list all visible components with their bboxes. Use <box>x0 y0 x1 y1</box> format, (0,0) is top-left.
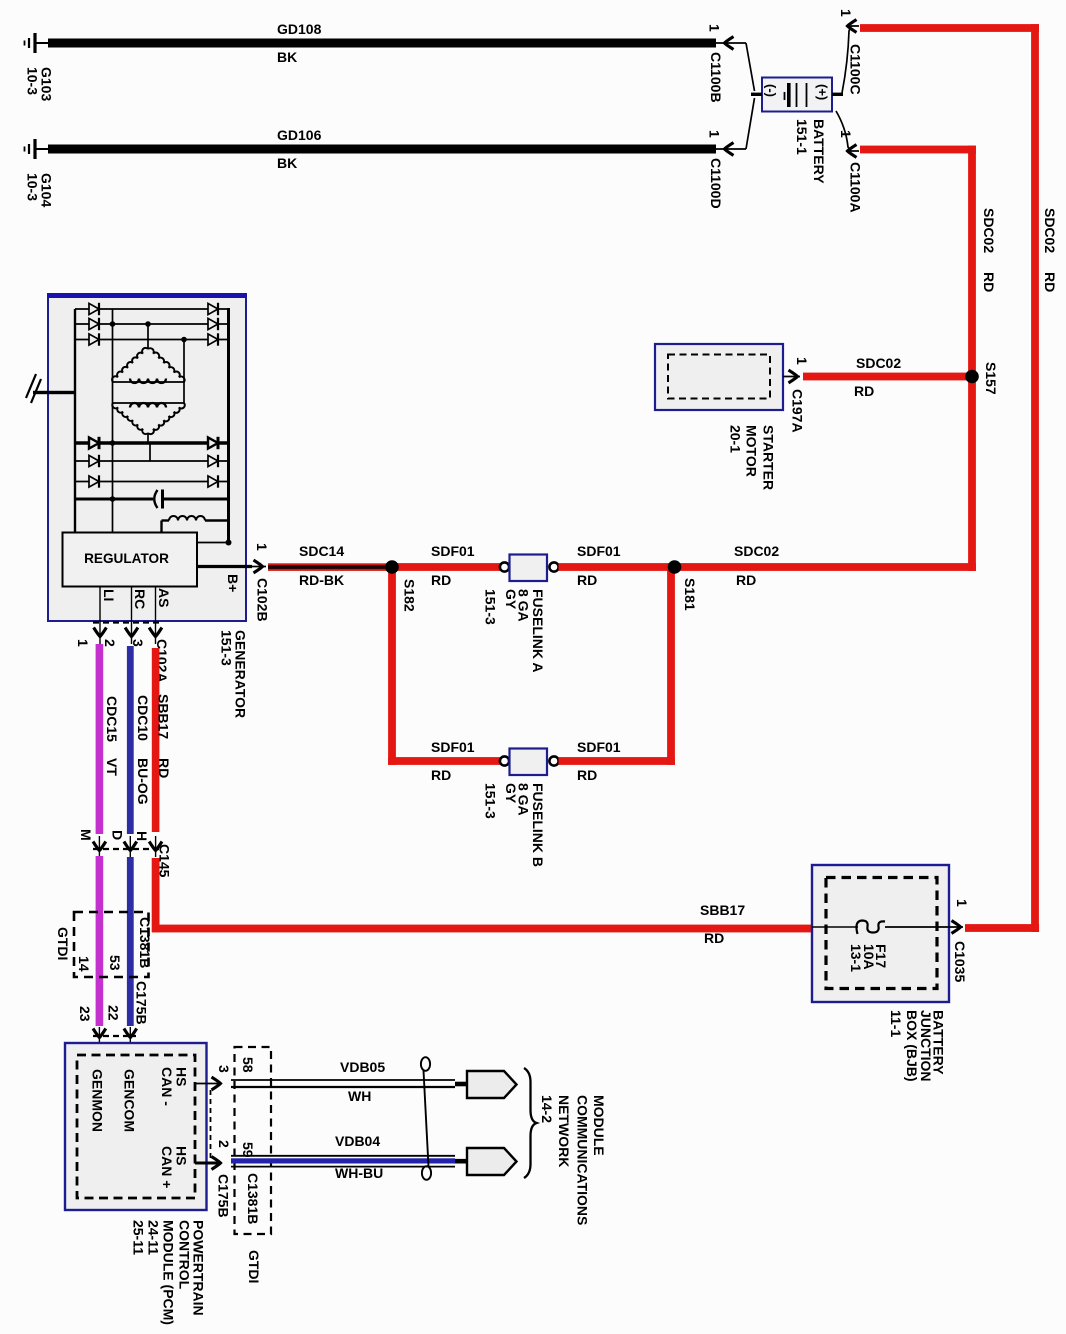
svg-text:C1100D: C1100D <box>708 158 724 209</box>
svg-text:1: 1 <box>954 899 970 907</box>
svg-text:SBB17: SBB17 <box>700 902 745 918</box>
svg-text:CAN -: CAN - <box>159 1067 175 1106</box>
svg-text:SDC02: SDC02 <box>981 208 997 253</box>
svg-text:58: 58 <box>240 1057 256 1073</box>
svg-text:14: 14 <box>76 956 92 972</box>
svg-text:RD: RD <box>854 383 874 399</box>
svg-text:NETWORK: NETWORK <box>556 1095 572 1167</box>
svg-text:BU-OG: BU-OG <box>135 758 151 805</box>
svg-text:53: 53 <box>107 955 123 971</box>
svg-text:GTDI: GTDI <box>55 927 71 960</box>
svg-text:S157: S157 <box>983 362 999 395</box>
svg-text:BK: BK <box>277 49 297 65</box>
svg-text:S182: S182 <box>402 579 418 612</box>
svg-text:2: 2 <box>102 639 118 647</box>
svg-text:11-1: 11-1 <box>888 1010 904 1037</box>
svg-text:B+: B+ <box>225 574 241 592</box>
svg-text:BATTERY: BATTERY <box>811 119 827 184</box>
svg-text:C175B: C175B <box>216 1174 232 1218</box>
svg-text:(-): (-) <box>764 84 779 97</box>
svg-text:1: 1 <box>254 543 270 551</box>
svg-text:C1100A: C1100A <box>848 162 864 213</box>
svg-text:151-3: 151-3 <box>483 783 499 819</box>
svg-text:CDC10: CDC10 <box>135 695 151 741</box>
svg-text:RD: RD <box>577 767 597 783</box>
svg-text:GY: GY <box>503 783 519 804</box>
svg-text:BOX (BJB): BOX (BJB) <box>904 1010 920 1082</box>
svg-text:C102B: C102B <box>255 578 271 622</box>
svg-text:RD: RD <box>736 572 756 588</box>
svg-text:D: D <box>110 830 126 840</box>
svg-text:VDB04: VDB04 <box>335 1133 380 1149</box>
svg-text:1: 1 <box>838 9 854 17</box>
svg-text:COMMUNICATIONS: COMMUNICATIONS <box>575 1095 591 1225</box>
svg-text:3: 3 <box>216 1065 232 1073</box>
svg-text:RD: RD <box>577 572 597 588</box>
svg-text:H: H <box>134 831 150 841</box>
svg-text:23: 23 <box>77 1006 93 1022</box>
svg-text:22: 22 <box>106 1005 122 1021</box>
svg-text:GTDI: GTDI <box>246 1250 262 1283</box>
svg-text:SDF01: SDF01 <box>577 543 621 559</box>
svg-text:GD106: GD106 <box>277 127 322 143</box>
svg-text:3: 3 <box>130 639 146 647</box>
svg-text:SDC02: SDC02 <box>1042 208 1058 253</box>
svg-text:RD: RD <box>431 767 451 783</box>
svg-text:C1100B: C1100B <box>708 52 724 103</box>
svg-text:SDC02: SDC02 <box>734 543 779 559</box>
svg-text:C1381B: C1381B <box>245 1173 261 1224</box>
svg-text:C175B: C175B <box>134 981 150 1025</box>
svg-text:STARTER: STARTER <box>761 425 777 490</box>
svg-text:13-1: 13-1 <box>848 944 864 972</box>
svg-text:MODULE (PCM): MODULE (PCM) <box>161 1220 177 1325</box>
svg-text:14-2: 14-2 <box>539 1095 555 1123</box>
svg-text:MODULE: MODULE <box>591 1095 607 1156</box>
svg-text:RC: RC <box>132 589 148 609</box>
svg-text:RD: RD <box>981 272 997 292</box>
svg-text:VT: VT <box>104 758 120 776</box>
svg-text:SDF01: SDF01 <box>431 543 475 559</box>
svg-text:RD-BK: RD-BK <box>299 572 344 588</box>
svg-text:RD: RD <box>156 758 172 778</box>
svg-text:151-1: 151-1 <box>794 119 810 155</box>
svg-text:24-11: 24-11 <box>146 1220 162 1255</box>
svg-text:SDC14: SDC14 <box>299 543 344 559</box>
svg-text:CDC15: CDC15 <box>104 696 120 742</box>
svg-text:(+): (+) <box>815 84 830 100</box>
svg-text:VDB05: VDB05 <box>340 1059 385 1075</box>
svg-text:C1100C: C1100C <box>848 44 864 95</box>
svg-text:GD108: GD108 <box>277 21 322 37</box>
svg-text:WH-BU: WH-BU <box>335 1165 383 1181</box>
svg-text:RD: RD <box>431 572 451 588</box>
svg-text:GENCOM: GENCOM <box>122 1069 138 1132</box>
svg-text:C1035: C1035 <box>952 941 968 982</box>
svg-text:GY: GY <box>503 589 519 610</box>
svg-text:RD: RD <box>704 930 724 946</box>
svg-text:SDF01: SDF01 <box>431 739 475 755</box>
svg-text:GENMON: GENMON <box>90 1069 106 1132</box>
svg-text:WH: WH <box>348 1088 371 1104</box>
svg-text:1: 1 <box>707 130 723 138</box>
svg-text:BK: BK <box>277 155 297 171</box>
svg-text:151-3: 151-3 <box>483 589 499 625</box>
svg-text:2: 2 <box>216 1140 232 1148</box>
svg-text:CONTROL: CONTROL <box>177 1220 193 1290</box>
svg-text:LI: LI <box>101 589 117 601</box>
svg-text:10-3: 10-3 <box>25 67 41 95</box>
svg-text:REGULATOR: REGULATOR <box>84 551 169 566</box>
svg-text:1: 1 <box>838 130 854 138</box>
svg-text:RD: RD <box>1042 272 1058 292</box>
svg-text:C197A: C197A <box>790 389 806 433</box>
svg-text:SDF01: SDF01 <box>577 739 621 755</box>
svg-text:CAN +: CAN + <box>159 1146 175 1188</box>
svg-text:M: M <box>78 829 94 841</box>
svg-text:AS: AS <box>156 588 172 607</box>
svg-text:SBB17: SBB17 <box>156 694 172 739</box>
svg-text:20-1: 20-1 <box>728 425 744 453</box>
svg-text:1: 1 <box>707 24 723 32</box>
svg-text:S181: S181 <box>682 578 698 611</box>
svg-text:151-3: 151-3 <box>219 630 235 666</box>
svg-text:10-3: 10-3 <box>25 173 41 201</box>
svg-text:1: 1 <box>794 357 810 365</box>
svg-text:MOTOR: MOTOR <box>744 425 760 477</box>
svg-text:C1381B: C1381B <box>137 917 153 968</box>
svg-text:25-11: 25-11 <box>131 1220 147 1255</box>
svg-text:SDC02: SDC02 <box>856 355 901 371</box>
svg-text:1: 1 <box>75 639 91 647</box>
